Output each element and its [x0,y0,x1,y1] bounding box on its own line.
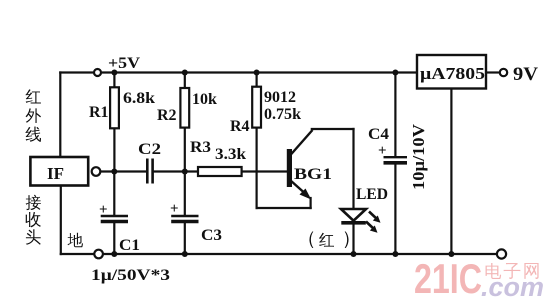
wire C3 top lead [184,172,186,216]
junction R4 top [254,70,260,76]
junction C4 top [392,70,398,76]
capacitor C2 [138,141,161,184]
svg-text:μA7805: μA7805 [420,64,485,83]
wire LED cathode to ground rail [352,224,354,255]
svg-text:+: + [170,201,179,217]
wire signal line IF output to C2 [101,170,147,172]
svg-text:10μ/10V: 10μ/10V [409,124,428,190]
wire collector down to LED anode [352,129,354,209]
svg-text:9V: 9V [513,64,538,85]
wire R2 bottom lead to node B [184,128,186,172]
label LED colour (red) [309,232,348,248]
wire collector horizontal [312,128,354,130]
resistor R3 [190,139,246,176]
svg-text:C2: C2 [138,141,161,158]
capacitor C3 [170,201,222,244]
svg-text:21IC: 21IC [414,255,482,302]
junction LED ground [351,251,357,257]
wire emitter return horizontal [257,207,311,209]
wire C4 bottom lead [394,165,396,255]
wire IF box bottom to ground rail [60,186,62,255]
svg-text:C3: C3 [201,227,222,244]
svg-text:BG1: BG1 [294,166,332,183]
resistor R4 [230,87,301,135]
svg-text:R2: R2 [157,107,177,124]
svg-text:9012: 9012 [264,89,296,106]
capacitor C4 [368,124,428,190]
resistor R2 [157,88,217,128]
LED D1 [341,186,388,233]
wire emitter vertical stub [310,198,312,208]
wire R4 top lead [256,73,258,87]
terminal ground-left open circle [94,250,103,259]
wire R2 top lead [184,73,186,89]
svg-text:IF: IF [47,164,64,183]
junction C3 ground [182,251,188,257]
terminal +5V open circle [94,69,101,76]
label infrared receiver vertical text [25,89,41,245]
junction C4 ground [392,251,398,257]
wire C1 top lead [113,172,115,216]
wire R4 bottom lead crossing signal line [256,128,258,208]
IF receiver module [30,157,88,186]
svg-text:10k: 10k [192,91,217,108]
wire left vertical from top rail to IF box [59,73,61,158]
svg-text:+: + [99,202,108,218]
junction node A [111,169,117,175]
svg-text:.com: .com [481,272,544,302]
junction node B [182,169,188,175]
wire R3 to transistor base [242,170,287,172]
svg-text:R4: R4 [230,118,250,135]
wire bottom ground rail [61,253,497,255]
wire C1 bottom lead [113,223,115,254]
wire C2 to node B [154,170,198,172]
wire R1 bottom lead to node A [113,128,115,171]
wire 7805 ground lead [450,89,452,255]
wire top rail +5V [60,71,417,73]
capacitor C1 [99,202,140,254]
terminal 9V output open circle [500,69,507,76]
junction C1 ground [111,251,117,257]
svg-text:R3: R3 [190,139,211,156]
svg-text:R1: R1 [89,104,109,121]
terminal ground-right open circle [497,249,506,258]
wire 7805 output stub [486,71,499,73]
svg-text:+: + [378,143,387,159]
wire C3 bottom lead [184,223,186,254]
svg-text:C4: C4 [368,126,389,143]
resistor R1 [89,87,155,128]
svg-text:6.8k: 6.8k [123,90,155,107]
watermark 21IC logo [414,255,544,302]
wire R1 top lead [113,73,115,88]
svg-text:+5V: +5V [108,55,140,72]
svg-text:1μ/50V*3: 1μ/50V*3 [91,267,170,284]
transistor Q1 BG1 9012 [287,130,332,200]
svg-text:C1: C1 [119,237,140,254]
junction R1 top [111,70,117,76]
regulator U1 uA7805 [417,55,486,89]
label ground (di) [68,233,83,248]
junction R2 top [182,70,188,76]
svg-text:0.75k: 0.75k [264,106,301,123]
terminal IF output open circle [92,167,101,176]
svg-text:LED: LED [356,186,388,203]
svg-text:3.3k: 3.3k [215,146,246,163]
wire C4 top lead from +5V rail [394,73,396,157]
junction 7805 ground [448,251,454,257]
